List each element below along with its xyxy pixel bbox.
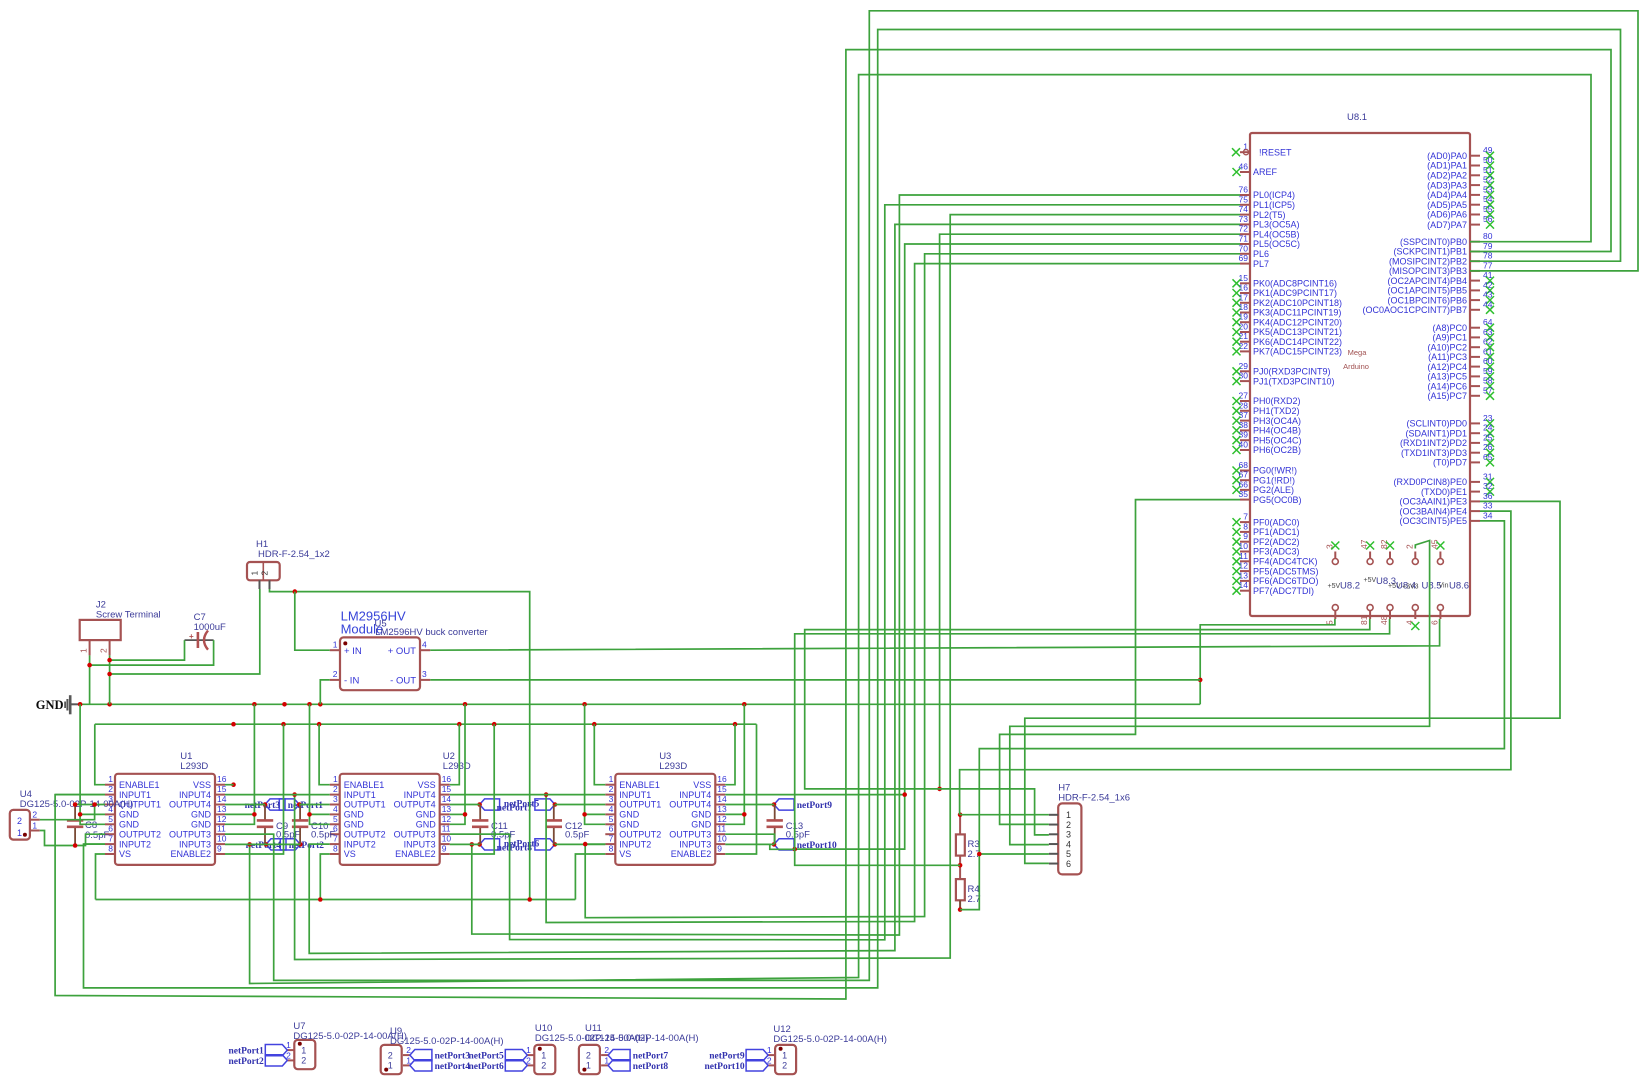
- svg-text:14: 14: [442, 794, 452, 804]
- svg-text:netPort8: netPort8: [633, 1062, 669, 1072]
- svg-text:(TXD0)PE1: (TXD0)PE1: [1421, 487, 1467, 497]
- U8.1 pin 69 PL7: [1240, 263, 1250, 265]
- wire U4 pin2 to OUTPUT1: [40, 805, 95, 820]
- junction GND rail U1 left GND: [78, 702, 83, 707]
- svg-text:(OC1BPCINT6)PB6: (OC1BPCINT6)PB6: [1387, 295, 1467, 305]
- U8.1 pin 10 PF3(ADC3): [1240, 551, 1250, 553]
- svg-text:18: 18: [1239, 302, 1249, 312]
- U1 pin 9 ENABLE2: [215, 853, 225, 855]
- U8.1 pin 77 (MISOPCINT3)PB3: [1470, 270, 1480, 272]
- H7 pin 1: [1049, 814, 1058, 816]
- wire U2 left GND: [310, 704, 330, 824]
- U8.1 pin 11 PF4(ADC4TCK): [1240, 560, 1250, 562]
- U8.1 pin 66 PG2(ALE): [1240, 489, 1250, 491]
- wire U3 right GND: [725, 704, 744, 824]
- power unit U8.3 top pin 47: [1367, 559, 1373, 565]
- svg-text:(SCKPCINT1)PB1: (SCKPCINT1)PB1: [1393, 247, 1467, 257]
- svg-text:OUTPUT2: OUTPUT2: [344, 829, 386, 839]
- junction rail2 U1 ENABLE2: [281, 722, 286, 727]
- U1 pin 6 OUTPUT2: [105, 833, 115, 835]
- svg-text:(TXD1INT3)PD3: (TXD1INT3)PD3: [1401, 448, 1467, 458]
- wire PL0 net: [472, 195, 1240, 935]
- wire H7 pin1 branch: [960, 814, 1049, 816]
- junction J2 pin2 branch: [107, 658, 112, 663]
- svg-text:3: 3: [1066, 830, 1071, 840]
- svg-text:PJ0(RXD3PCINT9): PJ0(RXD3PCINT9): [1253, 367, 1331, 377]
- H1 pin 2: [269, 580, 271, 589]
- wire U2 INPUT3 row: [450, 843, 480, 845]
- wire U1 right GND: [225, 704, 254, 824]
- svg-text:14: 14: [217, 794, 227, 804]
- svg-text:L293D: L293D: [659, 761, 687, 772]
- svg-text:1: 1: [32, 821, 37, 831]
- svg-text:12: 12: [217, 814, 227, 824]
- junction rail2 U3 ENABLE1: [592, 722, 597, 727]
- connector U11 body: [579, 1045, 600, 1074]
- U8.1 pin 76 PL0(ICP4): [1240, 194, 1250, 196]
- U8.1 pin 56 (AD7)PA7: [1470, 224, 1480, 226]
- wire PE3 net to H7 pin 6: [1025, 501, 1560, 863]
- svg-text:OUTPUT4: OUTPUT4: [669, 800, 711, 810]
- svg-text:ENABLE2: ENABLE2: [395, 849, 436, 859]
- wire PE5 net to H7 pin 5: [979, 521, 1504, 854]
- svg-text:10: 10: [442, 834, 452, 844]
- wire H1 pin2 VIN line: [270, 589, 530, 900]
- svg-text:PK6(ADC14PCINT22): PK6(ADC14PCINT22): [1253, 337, 1342, 347]
- capacitor C8 0.5pF: [74, 807, 76, 821]
- U1 pin 1 ENABLE1: [105, 784, 115, 786]
- svg-text:0.5pF: 0.5pF: [311, 830, 335, 841]
- U8.1 pin 13 PF6(ADC6TDO): [1240, 580, 1250, 582]
- svg-text:2: 2: [388, 1050, 393, 1060]
- svg-text:14: 14: [1239, 580, 1249, 590]
- U8.1 pin 68 PG0(!WR!): [1240, 470, 1250, 472]
- svg-text:14: 14: [717, 794, 727, 804]
- U3 pin 12 GND: [715, 823, 725, 825]
- svg-text:PL5(OC5C): PL5(OC5C): [1253, 239, 1300, 249]
- junction -OUT on pin5 column: [1198, 678, 1203, 683]
- capacitor C10: [299, 805, 301, 821]
- U8.1 pin 35 PG5(OC0B): [1240, 499, 1250, 501]
- svg-text:VS: VS: [344, 849, 356, 859]
- svg-text:2: 2: [99, 648, 109, 653]
- H1 pin 1: [259, 580, 261, 589]
- U2 pin 4 GND: [330, 813, 340, 815]
- svg-text:1: 1: [388, 1061, 393, 1071]
- junction R3 top: [958, 812, 963, 817]
- U8.1 pin 58 (A14)PC6: [1470, 385, 1480, 387]
- svg-text:11: 11: [1239, 551, 1248, 561]
- net label netPort3 (flag): [410, 1050, 432, 1061]
- svg-text:8: 8: [609, 844, 614, 854]
- svg-text:37: 37: [1239, 410, 1249, 420]
- svg-text:16: 16: [717, 774, 727, 784]
- svg-text:9: 9: [442, 844, 447, 854]
- svg-text:1: 1: [333, 774, 338, 784]
- U5 pin 1 +IN: [330, 649, 340, 651]
- svg-text:2: 2: [586, 1050, 591, 1060]
- junction U2 pin13 GND: [463, 812, 468, 817]
- svg-text:(A11)PC3: (A11)PC3: [1428, 352, 1467, 362]
- wire U3 VS: [575, 854, 605, 900]
- junction rail2 U2 ENABLE2: [492, 722, 497, 727]
- svg-text:11: 11: [717, 824, 726, 834]
- svg-text:ENABLE2: ENABLE2: [170, 849, 211, 859]
- svg-text:1: 1: [782, 1050, 787, 1060]
- U2 pin 5 GND: [330, 823, 340, 825]
- junction R4 bottom: [958, 907, 963, 912]
- svg-text:11: 11: [442, 824, 451, 834]
- wire PL1 net: [450, 205, 1240, 940]
- svg-text:(RXD0PCIN8)PE0: (RXD0PCIN8)PE0: [1393, 477, 1467, 487]
- wire U3 left GND: [585, 704, 606, 824]
- svg-text:0.5pF: 0.5pF: [85, 830, 109, 841]
- svg-text:(OC1APCINT5)PB5: (OC1APCINT5)PB5: [1387, 286, 1467, 296]
- junction VS rail VIN: [527, 897, 532, 902]
- H7 pin 2: [1049, 824, 1058, 826]
- U2 pin 16 VSS: [440, 784, 450, 786]
- net label netPort7 (flag): [608, 1050, 630, 1061]
- svg-text:9: 9: [717, 844, 722, 854]
- wire PG5 net to H7 pin 2: [1000, 500, 1240, 825]
- wire U3 VSS: [725, 724, 735, 785]
- svg-text:netPort1: netPort1: [228, 1047, 264, 1057]
- svg-text:+5V: +5V: [1328, 583, 1341, 590]
- svg-text:GND: GND: [36, 698, 64, 712]
- junction U3 pin13 GND: [742, 812, 747, 817]
- U8.1 pin 32 (TXD0)PE1: [1470, 491, 1480, 493]
- U8.1 pin 26 (TXD1INT3)PD3: [1470, 452, 1480, 454]
- U8.1 pin 64 (A8)PC0: [1470, 327, 1480, 329]
- svg-text:(AD6)PA6: (AD6)PA6: [1427, 210, 1467, 220]
- svg-text:(OC0AOC1CPCINT7)PB7: (OC0AOC1CPCINT7)PB7: [1362, 305, 1467, 315]
- net label netPort4 (flag): [280, 839, 300, 850]
- svg-text:ENABLE1: ENABLE1: [119, 780, 160, 790]
- U8.1 pin 51 (AD2)PA2: [1470, 174, 1480, 176]
- svg-text:5: 5: [333, 814, 338, 824]
- svg-text:(AD7)PA7: (AD7)PA7: [1427, 220, 1467, 230]
- svg-text:30: 30: [1239, 371, 1249, 381]
- resistor R3 2.7: [956, 834, 965, 855]
- svg-text:68: 68: [1239, 460, 1249, 470]
- svg-text:netPort10: netPort10: [704, 1062, 744, 1072]
- junction J2 pin1 branch: [87, 663, 92, 668]
- svg-text:INPUT3: INPUT3: [679, 839, 711, 849]
- svg-text:PG0(!WR!): PG0(!WR!): [1253, 466, 1297, 476]
- svg-text:PH4(OC4B): PH4(OC4B): [1253, 426, 1301, 436]
- svg-text:6: 6: [609, 824, 614, 834]
- svg-text:GND: GND: [191, 820, 212, 830]
- U9 pin 1: [403, 1064, 410, 1066]
- svg-text:28: 28: [1239, 400, 1249, 410]
- svg-text:netPort6: netPort6: [468, 1062, 504, 1072]
- junction VIN branch to U5 +IN: [293, 589, 298, 594]
- svg-text:GND: GND: [119, 810, 140, 820]
- svg-text:Screw Terminal: Screw Terminal: [96, 609, 161, 620]
- U8.1 pin 1 !RESET: [1240, 151, 1250, 153]
- wire U3 OUTPUT3 to netPort10: [725, 834, 774, 844]
- U8.1 pin 15 PK0(ADC8PCINT16): [1240, 282, 1250, 284]
- svg-text:4: 4: [1066, 839, 1071, 849]
- U3 pin 16 VSS: [715, 784, 725, 786]
- capacitor C11: [479, 805, 481, 821]
- svg-text:VSS: VSS: [193, 780, 211, 790]
- svg-text:PK1(ADC9PCINT17): PK1(ADC9PCINT17): [1253, 288, 1337, 298]
- svg-text:PK3(ADC11PCINT19): PK3(ADC11PCINT19): [1253, 308, 1341, 318]
- junction U3 INPUT4 / PL5 column: [902, 792, 907, 797]
- svg-text:PH3(OC4A): PH3(OC4A): [1253, 416, 1301, 426]
- svg-text:U8.2: U8.2: [1340, 581, 1360, 592]
- svg-text:10: 10: [717, 834, 727, 844]
- svg-text:0.5pF: 0.5pF: [786, 830, 810, 841]
- wire U5 -IN to GND rail: [320, 680, 329, 704]
- junction C8 top / OUTPUT1: [73, 802, 78, 807]
- wire U3 OUTPUT4 to netPort9: [725, 804, 774, 806]
- U5 pin 4 +OUT: [420, 649, 430, 651]
- svg-text:(AD5)PA5: (AD5)PA5: [1427, 200, 1467, 210]
- U3 pin 8 VS: [605, 853, 615, 855]
- junction rail2 U2 VSS: [457, 722, 462, 727]
- svg-text:ENABLE1: ENABLE1: [619, 780, 660, 790]
- U8.1 pin 50 (AD1)PA1: [1470, 165, 1480, 167]
- U1 pin 11 OUTPUT3: [215, 833, 225, 835]
- svg-text:(SSPCINT0)PB0: (SSPCINT0)PB0: [1400, 237, 1467, 247]
- wire +5V rail horizontal: [95, 723, 757, 725]
- wire U2 pin13 GND link: [450, 813, 465, 815]
- svg-text:!RESET: !RESET: [1259, 147, 1292, 157]
- U8.1 pin 36 (OC3AAIN1)PE3: [1470, 500, 1480, 502]
- junction U3 pin4 GND: [582, 812, 587, 817]
- net label netPort5 (flag): [480, 799, 500, 810]
- U1 pin 13 GND: [215, 813, 225, 815]
- U7 pin 2: [287, 1059, 294, 1061]
- svg-text:PH1(TXD2): PH1(TXD2): [1253, 406, 1300, 416]
- svg-text:VS: VS: [119, 849, 131, 859]
- svg-text:1: 1: [17, 828, 22, 838]
- U3 pin 10 INPUT3: [715, 843, 725, 845]
- U11 pin 1: [601, 1064, 608, 1066]
- svg-text:PF4(ADC4TCK): PF4(ADC4TCK): [1253, 557, 1318, 567]
- U10 pin 1: [527, 1054, 534, 1056]
- wire VIN to U5 +IN: [295, 592, 330, 651]
- capacitor C12: [553, 805, 555, 821]
- svg-text:PK2(ADC10PCINT18): PK2(ADC10PCINT18): [1253, 298, 1342, 308]
- svg-text:1: 1: [79, 648, 89, 653]
- U8.1 pin 27 PH0(RXD2): [1240, 400, 1250, 402]
- junction GND rail -IN: [318, 702, 323, 707]
- U8.1 pin 60 (A12)PC4: [1470, 366, 1480, 368]
- U8.1 pin 18 PK3(ADC11PCINT19): [1240, 312, 1250, 314]
- svg-text:netPort3: netPort3: [245, 801, 281, 811]
- net label netPort2 (flag): [265, 1055, 287, 1066]
- svg-text:15: 15: [717, 784, 727, 794]
- U8.1 pin 30 PJ1(TXD3PCINT10): [1240, 380, 1250, 382]
- U8.1 pin 14 PF7(ADC7TDI): [1240, 590, 1250, 592]
- U8.1 pin 38 PH4(OC4B): [1240, 429, 1250, 431]
- svg-text:PF7(ADC7TDI): PF7(ADC7TDI): [1253, 586, 1314, 596]
- svg-text:+ IN: + IN: [344, 646, 362, 657]
- U12 pin 1: [768, 1054, 775, 1056]
- U8.1 pin 49 (AD0)PA0: [1470, 155, 1480, 157]
- U1 pin 15 INPUT4: [215, 794, 225, 796]
- svg-text:10: 10: [217, 834, 227, 844]
- wire U4 pin1 to OUTPUT2: [40, 831, 105, 846]
- U2 pin 8 VS: [330, 853, 340, 855]
- svg-text:5: 5: [1066, 849, 1071, 859]
- junction VS rail U2: [318, 897, 323, 902]
- svg-text:L293D: L293D: [443, 761, 471, 772]
- U3 pin 5 GND: [605, 823, 615, 825]
- U2 pin 2 INPUT1: [330, 794, 340, 796]
- net label netPort6 (flag): [505, 1060, 527, 1071]
- U8.1 pin 24 (SDAINT1)PD1: [1470, 432, 1480, 434]
- U1 pin 10 INPUT3: [215, 843, 225, 845]
- svg-text:1: 1: [108, 774, 113, 784]
- net label netPort4 (flag): [410, 1060, 432, 1071]
- svg-text:GND: GND: [119, 820, 140, 830]
- power unit U8.3 bottom pin 81: [1367, 605, 1373, 611]
- svg-text:17: 17: [1239, 292, 1249, 302]
- svg-text:PK7(ADC15PCINT23): PK7(ADC15PCINT23): [1253, 347, 1342, 357]
- svg-text:11: 11: [217, 824, 226, 834]
- svg-text:35: 35: [1239, 489, 1249, 499]
- net label netPort5 (flag): [505, 1050, 527, 1061]
- svg-text:OUTPUT2: OUTPUT2: [619, 829, 661, 839]
- power unit U8.6 top pin 45: [1437, 559, 1443, 565]
- svg-text:OUTPUT4: OUTPUT4: [394, 800, 436, 810]
- net label netPort6 (flag): [480, 839, 500, 850]
- junction PL4 / pin81 line: [937, 787, 942, 792]
- svg-text:PK4(ADC12PCINT20): PK4(ADC12PCINT20): [1253, 317, 1342, 327]
- svg-text:INPUT3: INPUT3: [179, 839, 211, 849]
- svg-text:(OC3CINT5)PE5: (OC3CINT5)PE5: [1399, 516, 1467, 526]
- svg-text:8: 8: [108, 844, 113, 854]
- junction GND rail J2 pin2: [107, 702, 112, 707]
- svg-text:U8.1: U8.1: [1347, 112, 1367, 123]
- U8.1 pin 41 (OC2APCINT4)PB4: [1470, 280, 1480, 282]
- svg-text:Mega: Mega: [1348, 348, 1368, 357]
- svg-text:PK0(ADC8PCINT16): PK0(ADC8PCINT16): [1253, 279, 1337, 289]
- wire PL3 net: [309, 224, 1240, 953]
- wire J2 pin1 to GND rail: [89, 655, 91, 704]
- U8.1 pin 23 (SCLINT0)PD0: [1470, 422, 1480, 424]
- svg-text:PL3(OC5A): PL3(OC5A): [1253, 220, 1300, 230]
- U2 pin 12 GND: [440, 823, 450, 825]
- U8.1 pin 72 PL4(OC5B): [1240, 233, 1250, 235]
- net label netPort1 (flag): [265, 1045, 287, 1056]
- svg-text:15: 15: [442, 784, 452, 794]
- junction PE5/H7 pin5: [977, 852, 982, 857]
- svg-text:PF0(ADC0): PF0(ADC0): [1253, 517, 1300, 527]
- wire PE4 net to R3/H7 pin 1: [960, 511, 1511, 815]
- U8.1 pin 33 (OC3BAIN4)PE4: [1470, 510, 1480, 512]
- svg-text:(AD1)PA1: (AD1)PA1: [1427, 161, 1467, 171]
- svg-text:2: 2: [333, 784, 338, 794]
- svg-text:PG1(!RD!): PG1(!RD!): [1253, 475, 1295, 485]
- svg-text:40: 40: [1239, 440, 1249, 450]
- svg-text:4: 4: [333, 804, 338, 814]
- svg-text:(SCLINT0)PD0: (SCLINT0)PD0: [1406, 419, 1467, 429]
- svg-text:2: 2: [1066, 820, 1071, 830]
- wire U8 pin81 line to H7 pin3: [805, 619, 1370, 835]
- resistor R4 2.7: [956, 879, 965, 900]
- svg-text:PG5(OC0B): PG5(OC0B): [1253, 495, 1302, 505]
- wire U3 ENABLE1: [594, 724, 605, 785]
- svg-text:PL7: PL7: [1253, 259, 1269, 269]
- power unit U8.2 top pin 3: [1332, 559, 1338, 565]
- net label netPort10 (flag): [746, 1060, 768, 1071]
- wire U1 OUTPUT1: [75, 804, 105, 806]
- svg-text:+: +: [189, 632, 194, 641]
- svg-text:38: 38: [1239, 420, 1249, 430]
- U8.1 pin 17 PK2(ADC10PCINT18): [1240, 302, 1250, 304]
- svg-text:39: 39: [1239, 430, 1249, 440]
- wire R4 bottom loop: [960, 854, 979, 910]
- svg-text:(A14)PC6: (A14)PC6: [1427, 381, 1467, 391]
- U8.1 pin 29 PJ0(RXD3PCINT9): [1240, 370, 1250, 372]
- junction GND rail U3 right GND: [742, 702, 747, 707]
- svg-text:27: 27: [1239, 391, 1249, 401]
- svg-text:GND: GND: [691, 820, 712, 830]
- svg-text:1000uF: 1000uF: [194, 622, 226, 633]
- U3 pin 3 OUTPUT1: [605, 804, 615, 806]
- U8.1 pin 53 (AD4)PA4: [1470, 194, 1480, 196]
- wire J2 pin2 to C7 plus: [110, 640, 185, 660]
- junction OUTPUT4 U1 / netPort1: [263, 802, 268, 807]
- U2 pin 11 OUTPUT3: [440, 833, 450, 835]
- svg-text:netPort3: netPort3: [435, 1052, 471, 1062]
- wire U2 OUTPUT4 to netPort5: [450, 804, 480, 806]
- net label netPort1 (flag): [265, 799, 285, 810]
- svg-text:INPUT1: INPUT1: [344, 790, 376, 800]
- U3 pin 15 INPUT4: [715, 794, 725, 796]
- connector U9 body: [381, 1045, 402, 1074]
- svg-text:13: 13: [217, 804, 227, 814]
- U8.1 pin 31 (RXD0PCIN8)PE0: [1470, 481, 1480, 483]
- svg-text:PF3(ADC3): PF3(ADC3): [1253, 547, 1300, 557]
- wire U3 INPUT2 row to staircase: [555, 843, 605, 845]
- wire PL2 net: [295, 215, 1240, 960]
- svg-text:(A12)PC4: (A12)PC4: [1427, 362, 1467, 372]
- svg-text:2: 2: [301, 1056, 306, 1066]
- junction R3/R4 mid: [958, 863, 963, 868]
- U1 pin 12 GND: [215, 823, 225, 825]
- wire PL7 net: [546, 264, 1240, 923]
- junction U1 pin13 GND: [252, 812, 257, 817]
- svg-text:2: 2: [260, 571, 270, 576]
- U2 pin 6 OUTPUT2: [330, 833, 340, 835]
- wire U2 ENABLE1: [319, 724, 330, 785]
- svg-text:GND: GND: [416, 810, 437, 820]
- svg-text:PJ1(TXD3PCINT10): PJ1(TXD3PCINT10): [1253, 376, 1335, 386]
- wire VS rail: [96, 899, 576, 901]
- wire U1 INPUT1 to staircase: [55, 794, 105, 796]
- U1 pin 7 INPUT2: [105, 843, 115, 845]
- junction GND rail aux: [282, 702, 287, 707]
- svg-text:netPort9: netPort9: [797, 801, 833, 811]
- U8.1 pin 40 PH6(OC2B): [1240, 449, 1250, 451]
- U8.1 pin 42 (OC1APCINT5)PB5: [1470, 289, 1480, 291]
- svg-text:2: 2: [541, 1061, 546, 1071]
- power unit U8.4 top pin 82: [1387, 559, 1393, 565]
- svg-text:(AD4)PA4: (AD4)PA4: [1427, 190, 1467, 200]
- U2 pin 7 INPUT2: [330, 843, 340, 845]
- svg-text:ENABLE2: ENABLE2: [671, 849, 712, 859]
- junction PL5 / pin48 column: [792, 847, 797, 852]
- svg-text:29: 29: [1239, 361, 1249, 371]
- U8.1 pin 74 PL2(T5): [1240, 214, 1250, 216]
- wire U3 INPUT3 row: [725, 843, 774, 845]
